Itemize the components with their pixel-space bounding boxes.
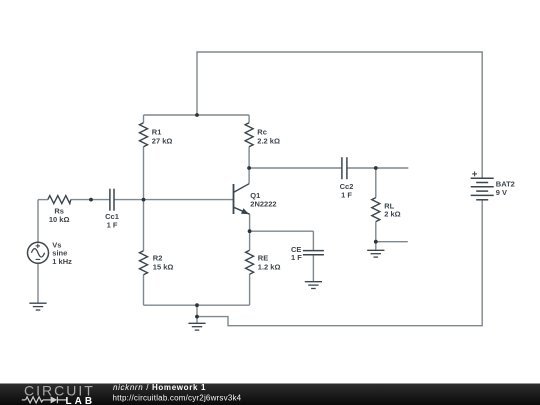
svg-text:http://circuitlab.com/cyr2j6wr: http://circuitlab.com/cyr2j6wrsv3k4 bbox=[113, 393, 242, 402]
svg-text:15 kΩ: 15 kΩ bbox=[153, 263, 174, 272]
svg-text:LAB: LAB bbox=[66, 396, 96, 405]
svg-text:RE: RE bbox=[258, 254, 268, 263]
svg-text:2 kΩ: 2 kΩ bbox=[384, 210, 400, 219]
svg-text:1 F: 1 F bbox=[107, 220, 118, 229]
svg-text:1 kHz: 1 kHz bbox=[52, 257, 72, 266]
svg-text:27 kΩ: 27 kΩ bbox=[152, 137, 173, 146]
svg-text:R1: R1 bbox=[152, 128, 162, 137]
svg-text:1 F: 1 F bbox=[341, 190, 352, 199]
svg-text:2.2 kΩ: 2.2 kΩ bbox=[257, 137, 280, 146]
svg-text:1.2 kΩ: 1.2 kΩ bbox=[258, 263, 281, 272]
svg-text:9 V: 9 V bbox=[496, 188, 507, 197]
svg-text:R2: R2 bbox=[153, 254, 163, 263]
svg-text:2N2222: 2N2222 bbox=[250, 200, 276, 209]
svg-text:nicknrn / Homework 1: nicknrn / Homework 1 bbox=[113, 383, 206, 392]
svg-text:1 F: 1 F bbox=[291, 253, 302, 262]
svg-text:Rc: Rc bbox=[257, 128, 267, 137]
svg-text:10 kΩ: 10 kΩ bbox=[49, 215, 70, 224]
